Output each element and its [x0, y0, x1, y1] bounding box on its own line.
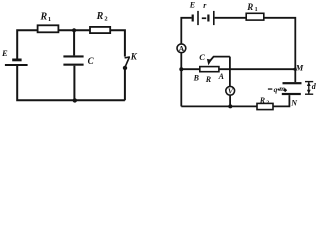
- node: junction dot top of capacitor branch: [72, 28, 76, 32]
- node: junction dot bottom of capacitor branch: [73, 98, 77, 102]
- wire: bottom rail and lower-left vertical: [17, 66, 125, 100]
- potentiometer R (box): [200, 67, 219, 72]
- wire: top-left corner (battery top to R1 left): [17, 30, 37, 58]
- wire: bottom rail left of R2: [181, 105, 257, 107]
- svg-text:E: E: [189, 1, 195, 10]
- wire: below switch down: [124, 70, 126, 101]
- wire: battery to R1: [215, 17, 247, 19]
- node: junction dot left rail / pot line: [179, 67, 183, 71]
- capacitor C (left circuit): [63, 30, 83, 100]
- wire: voltmeter down to bottom rail: [229, 95, 231, 106]
- switch K: [125, 57, 130, 67]
- svg-text:K: K: [130, 52, 138, 62]
- resistor R1 (right circuit): [246, 13, 264, 20]
- node: junction mid rail with right vertical: [293, 68, 296, 71]
- capacitor plate M (top): [283, 82, 302, 84]
- svg-text:1: 1: [255, 7, 258, 13]
- capacitor plate N (bottom): [282, 93, 301, 95]
- resistor R1 (left circuit): [38, 25, 59, 32]
- wire: ammeter down to bottom-left corner: [180, 53, 182, 107]
- label R2 (right circuit): [259, 96, 270, 106]
- label R1 (left circuit): [40, 12, 52, 23]
- wire: top between R1 and R2: [58, 29, 90, 31]
- svg-text:R: R: [259, 96, 266, 105]
- wire: wiper corner down to voltmeter (crosses mid rail): [229, 57, 231, 87]
- svg-text:m: m: [279, 84, 285, 93]
- svg-text:C: C: [199, 52, 205, 62]
- wire: mid rail (pot line) left segment: [181, 68, 200, 70]
- battery E,r (right circuit, two cells): [192, 11, 215, 25]
- dimension marker d (plate separation): [305, 82, 317, 95]
- label R1 (right circuit): [246, 2, 257, 13]
- charged particle -q, m between plates: [268, 84, 287, 94]
- voltmeter V: [226, 86, 235, 95]
- wire: bottom rail right of R2 up to bottom plate: [273, 95, 289, 106]
- svg-text:q: q: [274, 85, 278, 94]
- svg-text:1: 1: [48, 16, 51, 23]
- svg-text:R: R: [246, 2, 253, 12]
- svg-text:2: 2: [266, 100, 269, 106]
- resistor R2 (left circuit): [90, 27, 110, 33]
- svg-text:E: E: [1, 48, 8, 58]
- wire: top-right corner down to switch: [110, 30, 125, 56]
- ammeter A: [177, 44, 186, 53]
- resistor R2 (right circuit): [257, 103, 273, 109]
- svg-text:A: A: [179, 44, 185, 53]
- wire: mid rail right segment to right vertical: [219, 68, 295, 70]
- svg-text:M: M: [295, 63, 304, 73]
- svg-text:R: R: [40, 12, 48, 23]
- wire: top-left corner down to ammeter: [181, 18, 191, 44]
- svg-text:A: A: [218, 72, 225, 81]
- node: junction dot voltmeter / bottom rail: [228, 104, 232, 108]
- battery E (left circuit): [5, 59, 28, 67]
- wiper C of potentiometer (arrow + wire to corner): [207, 57, 230, 66]
- wire: R1 to top-right corner, down right side to top plate: [264, 18, 296, 82]
- svg-text:B: B: [193, 73, 200, 82]
- svg-text:2: 2: [104, 15, 107, 22]
- label R2 (left circuit): [96, 11, 108, 22]
- svg-text:R: R: [96, 11, 104, 22]
- svg-text:R: R: [205, 75, 212, 84]
- svg-text:C: C: [88, 56, 95, 66]
